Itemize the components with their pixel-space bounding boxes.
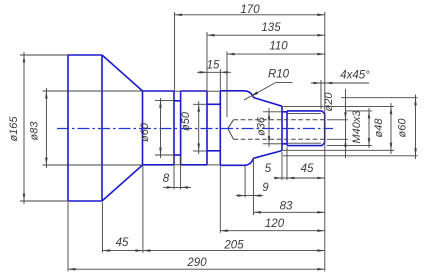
svg-text:ø36: ø36: [256, 116, 268, 136]
vertical extension fillet start bottom: [244, 166, 246, 198]
dimension 8: [163, 186, 191, 188]
dimension 290: [68, 268, 325, 270]
extension lines ø48 right: [282, 106, 394, 108]
conical taper to thread: [253, 98, 282, 159]
svg-text:205: 205: [223, 239, 244, 251]
extension line ø83 top: [43, 90, 143, 92]
vertical extensions groove5 bottom: [281, 152, 283, 180]
cone taper from flange to shaft: [102, 55, 143, 201]
svg-text:ø83: ø83: [29, 121, 41, 141]
extension lines ø60 right: [341, 97, 418, 99]
vertical extension shoulder left bottom: [219, 166, 221, 233]
svg-text:ø50: ø50: [180, 111, 192, 131]
svg-text:M40x3: M40x3: [351, 110, 363, 144]
svg-text:ø48: ø48: [373, 118, 385, 138]
svg-text:83: 83: [280, 200, 293, 212]
dimension 120: [220, 230, 324, 232]
shaft section ø83 right: [181, 91, 207, 165]
end chamfer 4x45: [322, 111, 325, 146]
vertical extension at ø83 right end for 135: [206, 32, 208, 91]
svg-text:170: 170: [240, 4, 260, 16]
vertical extension shoulder left for 15: [219, 69, 221, 90]
hidden axial hole ø20 dashed: [234, 120, 325, 140]
extension lines ø36 groove: [263, 111, 282, 113]
dimension M40x3: [368, 108, 370, 148]
dimension ø48: [390, 103, 392, 154]
extension lines ø60 groove: [155, 99, 174, 101]
svg-text:290: 290: [186, 257, 207, 269]
svg-text:8: 8: [163, 173, 170, 185]
centerline dash-dot: [57, 128, 333, 130]
dimension 15: [197, 71, 231, 73]
groove ø50 width 15: [207, 91, 220, 166]
extension lines M40x3 right: [346, 110, 373, 112]
vertical extension cone end bottom: [142, 166, 144, 253]
dimension 83: [253, 211, 324, 213]
thread minor diameter thin lines: [288, 112, 322, 114]
svg-text:135: 135: [261, 22, 281, 34]
dimension ø20: [345, 89, 347, 158]
dimension ø165: [23, 52, 25, 204]
shoulder section with R10 fillet: [220, 91, 253, 166]
dimension ø60 right: [415, 95, 417, 160]
extension line top of flange ø165: [20, 54, 68, 56]
svg-text:15: 15: [207, 60, 220, 72]
dimension ø60: [160, 98, 162, 158]
thin edge lines across groove 8: [174, 91, 182, 165]
dimension ø36: [268, 108, 270, 147]
vertical extension flange right bottom: [101, 202, 103, 253]
dimension ø83: [45, 88, 47, 168]
vertical extension taper start bottom: [252, 160, 254, 216]
threaded section M40x3: [287, 111, 322, 146]
svg-text:ø165: ø165: [8, 116, 20, 142]
extension lines ø20 hole right: [327, 119, 348, 121]
dimension ø50: [198, 101, 200, 154]
dimension 135: [207, 34, 325, 36]
extension line bottom of flange ø165: [20, 200, 68, 202]
dimension 170: [175, 14, 325, 16]
svg-text:ø20: ø20: [323, 92, 335, 112]
svg-text:45: 45: [301, 163, 314, 175]
drill tip cone of hole: [228, 120, 234, 140]
dimension 5 and 45: [274, 177, 325, 179]
extension line ø83 bottom: [43, 164, 143, 166]
svg-text:ø60: ø60: [139, 122, 151, 142]
svg-text:45: 45: [116, 237, 129, 249]
svg-text:9: 9: [262, 182, 269, 194]
vertical extension right end face long: [324, 12, 326, 271]
svg-text:110: 110: [269, 41, 288, 53]
vertical extension flange left bottom: [67, 202, 69, 271]
flange disc ø165 outline: [68, 55, 102, 201]
svg-text:R10: R10: [268, 69, 290, 81]
dimension 9: [236, 195, 263, 197]
relief groove width 8 (ø60): [174, 91, 181, 165]
shaft section ø83 left: [143, 91, 175, 165]
dimension 45 and 205: [102, 250, 324, 252]
dimension 4x45: [311, 82, 369, 84]
extension lines ø50 groove: [193, 103, 207, 105]
svg-text:ø60: ø60: [397, 118, 409, 138]
dimension 110: [227, 53, 325, 55]
thread relief groove width 5 (ø36): [282, 111, 287, 146]
svg-text:120: 120: [265, 218, 285, 230]
leader R10: [244, 82, 276, 100]
vertical extensions groove8 bottom: [173, 156, 175, 190]
svg-text:5: 5: [265, 163, 272, 175]
vertical extension chamfer start: [320, 80, 322, 109]
vertical extension at groove8 left for 170: [174, 12, 176, 91]
thin edge lines across groove ø50: [207, 91, 221, 165]
svg-text:4x45°: 4x45°: [340, 69, 370, 81]
vertical extension at hole bottom for 110: [226, 52, 228, 118]
